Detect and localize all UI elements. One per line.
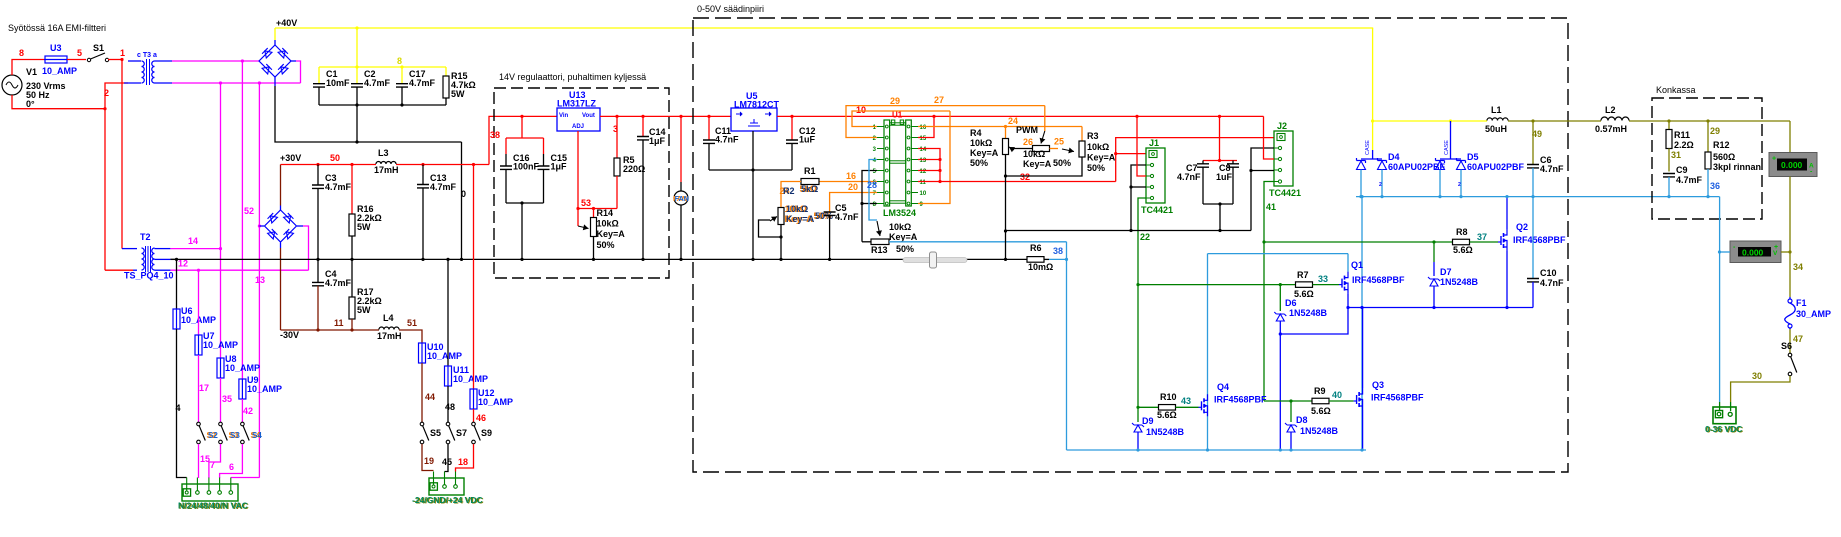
wire F1 to S6 — [1789, 329, 1791, 353]
svg-text:1: 1 — [120, 48, 125, 58]
svg-text:Q3: Q3 — [1372, 380, 1384, 390]
capacitor C14 — [637, 116, 666, 259]
wire cap bank top rail — [319, 65, 446, 68]
svg-text:1N5248B: 1N5248B — [1289, 308, 1328, 318]
svg-text:CASE: CASE — [1444, 140, 1450, 155]
wire C16 C15 bottom — [506, 201, 544, 259]
svg-text:13: 13 — [255, 275, 265, 285]
voltage source V1 — [2, 67, 66, 109]
svg-text:V1: V1 — [26, 67, 37, 77]
svg-text:2: 2 — [1458, 182, 1461, 188]
node 1 — [120, 48, 125, 58]
svg-text:4.7mF: 4.7mF — [364, 78, 391, 88]
wire S2 to pin2 — [198, 444, 200, 478]
svg-text:D8: D8 — [1296, 415, 1308, 425]
node 48 — [445, 402, 455, 412]
svg-text:T2: T2 — [140, 232, 151, 242]
svg-text:17mH: 17mH — [377, 331, 402, 341]
potentiometer R3 — [1006, 127, 1116, 177]
svg-text:220Ω: 220Ω — [623, 164, 645, 174]
wire D6 loop — [1279, 308, 1348, 336]
svg-text:560Ω: 560Ω — [1713, 152, 1735, 162]
svg-text:10kΩ: 10kΩ — [1023, 149, 1045, 159]
transistor Q4 — [1199, 382, 1268, 416]
fuse U12 — [470, 388, 513, 410]
slider widget — [903, 252, 967, 268]
node 53 — [581, 198, 591, 208]
svg-text:R9: R9 — [1314, 386, 1326, 396]
switch S2 — [197, 422, 219, 444]
wire bridge2 bottom to -30V — [280, 243, 282, 331]
svg-text:5: 5 — [77, 48, 82, 58]
svg-text:5W: 5W — [357, 305, 371, 315]
svg-text:50uH: 50uH — [1485, 124, 1507, 134]
svg-text:10: 10 — [920, 191, 927, 197]
svg-text:48: 48 — [445, 402, 455, 412]
wire Q1 source — [1347, 294, 1349, 308]
svg-text:32: 32 — [1020, 172, 1030, 182]
svg-text:50%: 50% — [597, 240, 615, 250]
fuse U6 — [173, 306, 216, 330]
svg-text:1N5248B: 1N5248B — [1146, 427, 1185, 437]
node 16 — [846, 171, 856, 181]
svg-text:R2: R2 — [783, 186, 795, 196]
node 47 — [1793, 334, 1803, 344]
svg-text:1μF: 1μF — [551, 162, 568, 172]
svg-text:N/24/48/40/N VAC: N/24/48/40/N VAC — [178, 501, 248, 511]
wire yellow down to L1 — [1372, 28, 1374, 121]
node 41 — [1266, 202, 1276, 212]
node 15 — [200, 454, 210, 464]
svg-text:33: 33 — [1318, 274, 1328, 284]
wire R13 to R6 — [889, 241, 1067, 243]
wire loop to T3 primary bottom — [105, 83, 128, 109]
label VDC out — [1705, 424, 1743, 435]
capacitor C3 — [312, 165, 352, 260]
wire J1 pin3 — [1137, 116, 1146, 176]
node 28 — [867, 180, 877, 190]
svg-text:LM317LZ: LM317LZ — [557, 99, 597, 109]
node 35 — [222, 394, 232, 404]
node 36 — [1710, 181, 1720, 191]
wire bridge1 top to +40V — [274, 28, 276, 45]
node 46 — [476, 413, 486, 423]
capacitor C1 — [313, 67, 350, 105]
svg-text:29: 29 — [890, 96, 900, 106]
node 37 — [1477, 232, 1487, 242]
svg-text:Q4: Q4 — [1217, 382, 1229, 392]
capacitor C12 — [786, 115, 816, 170]
wire bridge1 bottom black — [275, 77, 462, 144]
wire T3 sec top to bridge (net 52) — [172, 59, 259, 62]
svg-text:1μF: 1μF — [649, 136, 666, 146]
wire lightblue box — [1208, 254, 1349, 450]
svg-text:S2: S2 — [208, 431, 218, 440]
inductor L3 — [374, 148, 399, 175]
svg-text:35: 35 — [222, 394, 232, 404]
svg-text:5.6Ω: 5.6Ω — [1157, 410, 1177, 420]
wire net4 down — [176, 259, 178, 309]
wire S9 to pin3 — [456, 444, 474, 472]
inductor L4 — [377, 313, 402, 341]
regulator U13 LM317LZ — [557, 90, 600, 131]
wire V1 bottom loop — [12, 95, 107, 110]
title EMI filter — [8, 23, 106, 33]
inductor L2 — [1595, 105, 1629, 134]
svg-text:-24/GND/+24 VDC: -24/GND/+24 VDC — [412, 495, 483, 505]
svg-text:50%: 50% — [970, 158, 988, 168]
zener D7 — [1428, 242, 1479, 308]
node 30 — [1752, 371, 1762, 381]
node 8 yellow — [397, 56, 402, 66]
node 42 — [243, 406, 253, 416]
svg-text:Vin: Vin — [559, 113, 569, 119]
title Konkassa — [1656, 85, 1696, 95]
fuse U9 — [239, 375, 282, 400]
wire pin7 net20 — [830, 193, 877, 213]
node 52 — [244, 206, 254, 216]
title 14V regulator — [499, 72, 646, 82]
dual diode D4 — [1357, 121, 1446, 197]
node 45 — [442, 457, 452, 467]
svg-text:5W: 5W — [357, 222, 371, 232]
svg-text:4.7mF: 4.7mF — [325, 182, 352, 192]
bridge rectifier BR2 — [259, 210, 296, 242]
wire midrail lightblue — [1356, 195, 1720, 198]
wire J1 pin5 net22 — [1138, 198, 1146, 407]
svg-text:5kΩ: 5kΩ — [801, 184, 818, 194]
svg-text:V: V — [1773, 250, 1778, 257]
switch S3 — [219, 422, 241, 444]
svg-text:Key=A: Key=A — [1023, 159, 1052, 169]
wire Q2 drain — [1505, 195, 1508, 229]
zener D9 — [1132, 407, 1185, 450]
bridge rectifier BR1 — [259, 45, 296, 77]
wire net32 — [918, 180, 1116, 183]
svg-text:FAN: FAN — [675, 196, 689, 203]
svg-text:IRF4568PBF: IRF4568PBF — [1352, 275, 1405, 285]
svg-text:10kΩ: 10kΩ — [1087, 142, 1109, 152]
switch S1 — [87, 43, 108, 62]
regulator U5 LM7812CT — [731, 91, 780, 131]
svg-text:27: 27 — [934, 95, 944, 105]
wire +30V to 14V box — [489, 116, 557, 164]
wire bridge2 top to +30V — [280, 165, 282, 211]
svg-text:+30V: +30V — [280, 153, 301, 163]
capacitor C5 — [824, 203, 859, 259]
transistor Q3 — [1354, 380, 1424, 410]
svg-text:50: 50 — [330, 153, 340, 163]
svg-text:22: 22 — [1140, 232, 1150, 242]
svg-text:30_AMP: 30_AMP — [1796, 309, 1831, 319]
svg-text:Key=A: Key=A — [1087, 153, 1116, 163]
wire 0-node vertical — [461, 142, 463, 259]
wire pin1 orange inner — [852, 111, 950, 127]
wire net13 to pin5 — [231, 477, 260, 479]
voltmeter XMM2 — [1718, 241, 1792, 263]
svg-text:1uF: 1uF — [1216, 172, 1233, 182]
fan — [673, 116, 689, 259]
transistor Q2 — [1498, 222, 1566, 251]
wire T2 centre tap to 0V — [170, 258, 176, 260]
svg-text:+40V: +40V — [276, 18, 297, 28]
fuse U3 — [42, 43, 77, 76]
potentiometer R2 — [759, 186, 834, 259]
fuse F1 — [1785, 297, 1831, 329]
svg-text:18: 18 — [458, 457, 468, 467]
wire ADJ down — [576, 131, 617, 210]
svg-text:IRF4568PBF: IRF4568PBF — [1371, 393, 1424, 403]
switch S7 — [446, 422, 467, 444]
node 10 — [856, 105, 866, 115]
fuse U7 — [195, 331, 238, 356]
svg-text:5.6Ω: 5.6Ω — [1311, 406, 1331, 416]
svg-text:43: 43 — [1181, 396, 1191, 406]
node 51 — [407, 318, 417, 328]
svg-text:0-50V säädinpiiri: 0-50V säädinpiiri — [697, 4, 764, 14]
svg-text:30: 30 — [1752, 371, 1762, 381]
svg-text:10_AMP: 10_AMP — [478, 397, 513, 407]
capacitor C10 — [1527, 197, 1564, 308]
svg-text:4.7nF: 4.7nF — [1540, 278, 1564, 288]
label VDC connector — [412, 495, 484, 506]
connector VAC — [182, 478, 238, 502]
inductor L1 — [1485, 105, 1508, 134]
fuse U8 — [217, 354, 260, 379]
svg-text:S1: S1 — [93, 43, 104, 53]
wire S4 to pin4 — [220, 444, 243, 478]
svg-text:+: + — [1772, 156, 1776, 163]
ammeter XMM1 — [1769, 121, 1817, 297]
wire C16 C15 top — [506, 116, 544, 166]
fuse U11 — [445, 365, 489, 387]
svg-text:19: 19 — [424, 456, 434, 466]
svg-text:42: 42 — [243, 406, 253, 416]
wire lightblue main vertical — [1361, 197, 1363, 450]
wire rail 307 — [1346, 306, 1533, 309]
wire Q3 drain — [1362, 308, 1364, 389]
svg-text:Key=A: Key=A — [786, 214, 815, 224]
svg-text:4.7nF: 4.7nF — [1540, 164, 1564, 174]
svg-text:0-36 VDC: 0-36 VDC — [1705, 424, 1742, 434]
svg-text:6: 6 — [229, 462, 234, 472]
capacitor C9 — [1663, 165, 1703, 197]
resistor R8 — [1262, 227, 1498, 255]
wire pin5 pin8 ground — [860, 171, 877, 242]
svg-text:8: 8 — [397, 56, 402, 66]
capacitor C2 — [351, 67, 391, 105]
svg-text:60APU02PBF: 60APU02PBF — [1467, 162, 1525, 172]
svg-text:TS_PQ4_10: TS_PQ4_10 — [124, 271, 174, 281]
wire pin16 vref — [918, 125, 1082, 128]
svg-text:LM7812CT: LM7812CT — [734, 100, 780, 110]
svg-text:D4: D4 — [1388, 152, 1400, 162]
potentiometer PWM — [1012, 106, 1071, 169]
svg-text:4.7mF: 4.7mF — [1676, 175, 1703, 185]
svg-text:14: 14 — [188, 236, 198, 246]
svg-text:26: 26 — [1023, 137, 1033, 147]
switch S9 — [472, 422, 492, 444]
switch S4 — [241, 422, 263, 444]
svg-text:R3: R3 — [1087, 131, 1099, 141]
wire U11 to S7 — [447, 386, 449, 422]
wire pin6 net16 — [810, 181, 877, 183]
node 3 — [613, 124, 618, 134]
svg-text:0.57mH: 0.57mH — [1595, 124, 1627, 134]
svg-text:41: 41 — [1266, 202, 1276, 212]
IC J1 TC4421 — [1141, 138, 1173, 215]
svg-text:R8: R8 — [1456, 227, 1468, 237]
svg-text:CASE: CASE — [1365, 140, 1371, 155]
svg-text:L1: L1 — [1491, 105, 1502, 115]
svg-text:R7: R7 — [1297, 270, 1309, 280]
svg-text:R4: R4 — [970, 128, 982, 138]
wire +30V rail — [281, 163, 490, 166]
wire J2 pin2 pin4 — [1249, 148, 1274, 231]
svg-text:-30V: -30V — [280, 330, 299, 340]
label +40V — [276, 18, 297, 28]
wire U13 out rail — [600, 115, 731, 118]
wire J1 pin2 pin4 — [1129, 165, 1146, 231]
svg-text:100nF: 100nF — [513, 162, 540, 172]
wire net52 down — [241, 61, 243, 379]
svg-text:10kΩ: 10kΩ — [889, 222, 911, 232]
node 31 — [1671, 150, 1681, 160]
svg-text:U3: U3 — [50, 43, 62, 53]
svg-text:20: 20 — [848, 182, 858, 192]
wire T3 sec bottom (net 13) — [172, 61, 301, 85]
svg-text:D9: D9 — [1142, 416, 1154, 426]
wire -30V rail — [281, 328, 380, 331]
wire to J1 pin1 — [1116, 153, 1146, 155]
node 34 — [1793, 262, 1803, 272]
svg-text:10_AMP: 10_AMP — [247, 384, 282, 394]
wire J2 pin5 net41 — [1264, 182, 1274, 402]
svg-text:Key=A: Key=A — [889, 232, 918, 242]
svg-text:IRF4568PBF: IRF4568PBF — [1214, 395, 1267, 405]
svg-text:F1: F1 — [1796, 298, 1807, 308]
wire olive rail — [1508, 119, 1790, 122]
box 0-50V saadinpiiri — [693, 18, 1568, 472]
node 33 — [1318, 274, 1328, 284]
svg-text:51: 51 — [407, 318, 417, 328]
wire net12 horizontal — [170, 269, 308, 272]
wire net35 down — [219, 83, 222, 358]
wire pins 14 13 12 to net32 — [918, 149, 942, 182]
capacitor C11 — [703, 115, 739, 170]
wire net13 down — [258, 83, 261, 478]
svg-text:D6: D6 — [1285, 298, 1297, 308]
wire -30V to U10 — [399, 330, 422, 343]
wire bottom rail — [1067, 448, 1367, 451]
svg-text:R11: R11 — [1674, 130, 1690, 140]
svg-text:R10: R10 — [1160, 392, 1177, 402]
label -30V — [280, 330, 299, 340]
svg-text:c T3 a: c T3 a — [137, 52, 157, 59]
svg-text:0.000: 0.000 — [1742, 247, 1764, 257]
svg-text:25: 25 — [1054, 137, 1064, 147]
svg-text:2: 2 — [1379, 182, 1382, 188]
node 22 — [1140, 232, 1150, 242]
svg-text:8: 8 — [19, 48, 24, 58]
potentiometer R13 — [862, 221, 918, 255]
capacitor C13 — [417, 165, 457, 260]
svg-text:11: 11 — [334, 318, 344, 328]
fuse U10 — [419, 342, 463, 364]
svg-text:17mH: 17mH — [374, 165, 399, 175]
svg-text:38: 38 — [490, 130, 500, 140]
svg-text:R1: R1 — [804, 166, 816, 176]
wire U5 ground — [709, 131, 792, 259]
svg-text:5W: 5W — [451, 89, 465, 99]
resistor R6 — [1027, 243, 1067, 272]
svg-text:4.7mF: 4.7mF — [409, 78, 436, 88]
node 38 red — [490, 130, 500, 140]
svg-text:R14: R14 — [597, 208, 614, 218]
node 20 — [848, 182, 858, 192]
svg-text:5.6Ω: 5.6Ω — [1294, 289, 1314, 299]
svg-text:PWM: PWM — [1016, 125, 1038, 135]
node 12 — [178, 259, 188, 269]
svg-text:31: 31 — [1671, 150, 1681, 160]
capacitor C4 — [312, 259, 352, 330]
capacitor C8 — [1216, 159, 1239, 204]
svg-text:46: 46 — [476, 413, 486, 423]
svg-text:44: 44 — [425, 392, 435, 402]
svg-text:S4: S4 — [252, 431, 262, 440]
wire U9 to S4 — [241, 399, 243, 422]
svg-text:10kΩ: 10kΩ — [970, 138, 992, 148]
svg-text:L3: L3 — [378, 148, 389, 158]
svg-text:Key=A: Key=A — [597, 229, 626, 239]
svg-text:3kpl rinnan: 3kpl rinnan — [1713, 162, 1761, 172]
node 43 — [1181, 396, 1191, 406]
svg-text:S6: S6 — [1781, 341, 1792, 351]
wire node2 down to T2 primary bottom — [105, 109, 137, 271]
resistor R16 — [349, 165, 382, 260]
capacitor C15 — [538, 153, 568, 203]
svg-text:Q2: Q2 — [1516, 222, 1528, 232]
transistor Q1 — [1339, 260, 1405, 294]
wire yellow drop to cap bank — [356, 28, 358, 67]
capacitor C16 — [500, 153, 540, 203]
svg-text:5.6Ω: 5.6Ω — [1453, 245, 1473, 255]
svg-text:10_AMP: 10_AMP — [203, 340, 238, 350]
node 0 — [461, 189, 466, 199]
svg-text:J1: J1 — [1149, 138, 1159, 148]
junctions 0V rail — [175, 258, 1007, 261]
svg-text:37: 37 — [1477, 232, 1487, 242]
zener D8 — [1285, 401, 1339, 450]
svg-text:29: 29 — [1710, 126, 1720, 136]
svg-text:S3: S3 — [230, 431, 240, 440]
wire konkassa to meter — [1719, 197, 1721, 402]
wire U12 to S9 — [473, 409, 475, 422]
svg-text:1uF: 1uF — [799, 135, 816, 145]
svg-text:1N5248B: 1N5248B — [1300, 426, 1339, 436]
resistor R7 — [1136, 270, 1339, 299]
node 19 — [424, 456, 434, 466]
node 27 — [934, 95, 944, 105]
node 6 — [229, 462, 234, 472]
wire node1 down to T2 primary top — [122, 60, 137, 249]
wire +30V to U12 — [473, 165, 475, 390]
svg-text:10kΩ: 10kΩ — [786, 204, 808, 214]
svg-text:J2: J2 — [1277, 121, 1287, 131]
IC J2 TC4421 — [1269, 121, 1301, 198]
wire S5 to pin1 — [422, 444, 434, 471]
svg-text:38: 38 — [1053, 246, 1063, 256]
